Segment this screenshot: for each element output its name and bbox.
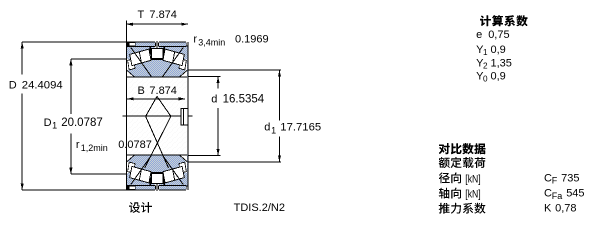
svg-text:20.0787: 20.0787	[61, 117, 103, 129]
thrust factor row	[439, 203, 486, 214]
label design (CJK)	[129, 202, 152, 213]
bore interior hatch	[127, 78, 186, 154]
svg-text:F: F	[552, 176, 558, 186]
svg-text:0: 0	[483, 75, 488, 84]
svg-text:[kN]: [kN]	[465, 173, 480, 185]
dimension T	[126, 9, 187, 26]
svg-text:545: 545	[566, 188, 584, 200]
svg-text:D: D	[9, 80, 17, 92]
inner ring back-face strip	[127, 43, 129, 46]
far-right face gap	[186, 59, 187, 70]
center flange square	[151, 48, 163, 58]
svg-text:K: K	[544, 203, 552, 215]
label r3,4min	[193, 33, 268, 47]
dimension d	[188, 77, 265, 156]
outer/inner ring steel section	[127, 47, 187, 78]
svg-text:0,78: 0,78	[555, 203, 576, 215]
svg-text:0,75: 0,75	[488, 29, 509, 41]
svg-text:0.0787: 0.0787	[118, 139, 152, 151]
svg-text:1,2min: 1,2min	[81, 143, 108, 153]
axial row	[439, 188, 461, 199]
inner ring rib corners	[150, 47, 165, 59]
svg-text:D: D	[44, 117, 52, 129]
right tapered roller	[163, 49, 184, 66]
dimension d1	[188, 70, 321, 162]
bearing side faces	[126, 21, 187, 191]
svg-text:1,35: 1,35	[491, 57, 512, 69]
svg-text:d: d	[264, 122, 270, 134]
top face outline	[126, 42, 187, 46]
dimension B	[127, 85, 185, 100]
svg-text:Fa: Fa	[552, 191, 563, 201]
svg-text:B: B	[138, 85, 145, 97]
svg-text:7.874: 7.874	[149, 9, 177, 21]
bearing lower section (mirror)	[126, 155, 187, 192]
label r1,2min	[76, 139, 152, 153]
pressure-line zigzag	[145, 96, 171, 168]
svg-text:TDIS.2/N2: TDIS.2/N2	[234, 202, 285, 214]
svg-text:0,9: 0,9	[491, 44, 506, 56]
svg-text:16.5354: 16.5354	[223, 93, 265, 105]
bearing upper section	[126, 41, 187, 78]
center pip (inner ring split)	[155, 41, 159, 49]
roller pressure lines	[131, 48, 183, 78]
svg-text:2: 2	[483, 62, 488, 71]
heading: calculation factors	[480, 15, 528, 26]
heading: comparison data	[439, 143, 485, 154]
svg-text:T: T	[138, 9, 145, 21]
rated loads	[439, 157, 485, 168]
svg-text:24.4094: 24.4094	[22, 80, 63, 92]
svg-text:17.7165: 17.7165	[280, 122, 321, 134]
svg-text:1: 1	[52, 121, 57, 131]
svg-text:0,9: 0,9	[491, 71, 506, 83]
svg-text:1: 1	[271, 125, 276, 135]
centerline	[123, 115, 193, 117]
svg-text:1: 1	[483, 48, 488, 57]
svg-text:r: r	[76, 139, 80, 151]
svg-text:7.874: 7.874	[149, 85, 177, 97]
strip/body boundary line	[127, 45, 186, 47]
svg-text:C: C	[544, 188, 552, 200]
right cage piece	[179, 59, 187, 70]
left tapered roller	[130, 49, 151, 66]
bottom-left corner triangle	[127, 70, 135, 77]
svg-text:3,4min: 3,4min	[198, 37, 225, 47]
svg-text:[kN]: [kN]	[465, 189, 480, 201]
dimension D	[9, 42, 127, 190]
dimension D1	[44, 59, 127, 174]
svg-text:r: r	[193, 33, 197, 45]
bottom-right corner triangle	[179, 70, 187, 77]
svg-text:e: e	[476, 29, 482, 41]
svg-text:735: 735	[561, 172, 579, 184]
left cage piece	[128, 59, 136, 70]
radial row	[439, 173, 461, 184]
snap ring groove tab N2	[181, 108, 188, 125]
bore line	[127, 76, 187, 78]
svg-text:d: d	[211, 93, 217, 105]
svg-text:0.1969: 0.1969	[235, 33, 269, 45]
far-left face gap	[127, 59, 128, 70]
svg-text:C: C	[544, 172, 552, 184]
